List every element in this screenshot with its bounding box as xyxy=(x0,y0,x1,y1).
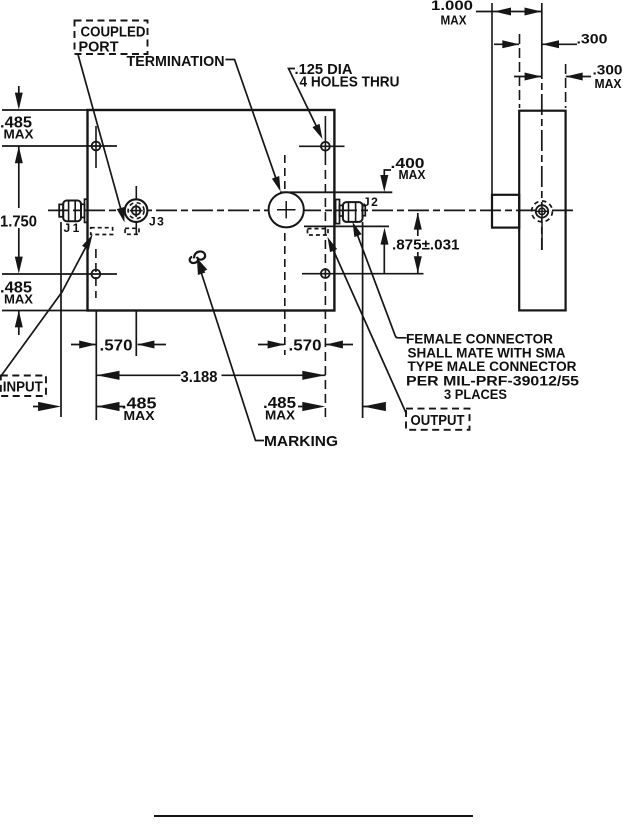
svg-text:FEMALE CONNECTOR: FEMALE CONNECTOR xyxy=(406,332,553,347)
svg-text:.875±.031: .875±.031 xyxy=(392,237,460,254)
label box OUTPUT dashed xyxy=(406,409,470,430)
label J2 xyxy=(363,195,379,209)
svg-text:MAX: MAX xyxy=(4,293,34,307)
node: right hole column dashed extension xyxy=(324,170,326,418)
extension line: J2 tip vertical xyxy=(362,222,364,418)
hole bottom-left with cross xyxy=(92,270,101,279)
svg-text:OUTPUT: OUTPUT xyxy=(411,413,465,429)
label J1 xyxy=(64,221,82,235)
svg-text:4 HOLES THRU: 4 HOLES THRU xyxy=(300,74,400,90)
svg-text:MAX: MAX xyxy=(595,77,623,91)
dimension .570 right xyxy=(258,338,353,355)
svg-text:1.000: 1.000 xyxy=(431,0,473,13)
note: female connector text block xyxy=(406,332,580,402)
node: top-left hole vertical centerline xyxy=(95,126,97,168)
svg-text:.300: .300 xyxy=(593,62,623,78)
hole top-left with cross xyxy=(92,142,101,151)
port marking dashed box under J3 xyxy=(125,228,139,234)
svg-text:1.750: 1.750 xyxy=(0,214,37,231)
svg-text:TYPE MALE CONNECTOR: TYPE MALE CONNECTOR xyxy=(408,359,577,374)
extension line: body top edge left xyxy=(2,109,88,111)
label .125 DIA 4 HOLES THRU xyxy=(295,62,400,90)
side view: jack circles xyxy=(532,201,553,250)
extension line: side front face xyxy=(491,3,493,194)
leader: female connector note to J2 xyxy=(349,220,407,337)
svg-text:MARKING: MARKING xyxy=(264,433,338,450)
dimension .400 MAX boss height xyxy=(380,155,426,274)
dimension 3.188 overall xyxy=(96,369,325,386)
body: main view outline xyxy=(88,110,335,311)
svg-text:MAX: MAX xyxy=(441,14,468,28)
extension line: termination center vertical dashed xyxy=(284,155,286,355)
svg-text:3 PLACES: 3 PLACES xyxy=(444,387,507,402)
bottom rule line xyxy=(154,815,473,817)
extension line: bottom-right hole row / .875 reference xyxy=(302,273,424,275)
dimension .875 +/- .031 xyxy=(392,213,460,274)
svg-text:.300: .300 xyxy=(577,31,608,47)
dimension .300 offset xyxy=(494,31,608,49)
extension line: body bottom edge left xyxy=(2,310,88,312)
boss tab top edge xyxy=(280,191,392,193)
svg-text:MAX: MAX xyxy=(4,128,35,142)
extension line: side body right face xyxy=(565,64,567,108)
dimension .300 MAX depth xyxy=(514,62,623,92)
dimension 1.000 MAX xyxy=(431,0,542,28)
dimension .570 left xyxy=(71,338,166,355)
label MARKING xyxy=(264,433,338,450)
side view: connector block xyxy=(492,195,519,228)
termination: resistor circle xyxy=(269,192,304,227)
leader: termination xyxy=(226,60,285,193)
svg-text:TERMINATION: TERMINATION xyxy=(127,53,225,70)
leader: coupled port to J3 marking xyxy=(78,55,128,224)
node: J3 vertical centerline xyxy=(135,186,137,234)
dimension .485 MAX bottom-left horizontal xyxy=(33,395,157,423)
port marking dashed box under J2 xyxy=(308,229,329,235)
extension line: J1 tip vertical xyxy=(60,222,62,417)
leader: output to J2 marking xyxy=(324,235,407,414)
svg-text:INPUT: INPUT xyxy=(3,379,43,395)
label J3 xyxy=(149,215,165,229)
label box INPUT dashed xyxy=(1,376,46,397)
marking location squiggle symbol xyxy=(190,251,208,273)
extension line: top hole row left xyxy=(2,145,117,147)
leader: .125 dia to top-right hole xyxy=(289,69,327,141)
extension line: side body left face xyxy=(519,34,521,108)
svg-text:J3: J3 xyxy=(149,215,165,229)
svg-text:J1: J1 xyxy=(64,221,82,235)
svg-text:3.188: 3.188 xyxy=(181,369,218,386)
leader: input to J1 marking xyxy=(1,233,96,376)
dimension .485 MAX top-left vertical xyxy=(0,86,34,208)
connector J2: output jack side view xyxy=(336,200,366,224)
extension line: left hole column below body xyxy=(95,311,97,421)
hole top-right with cross xyxy=(321,142,330,151)
svg-text:.570: .570 xyxy=(289,338,322,355)
connector J3: coupled port jack front view xyxy=(125,199,148,222)
node: top-right hole vertical centerline xyxy=(324,116,326,165)
centerline: main horizontal axis xyxy=(48,209,577,211)
extension line: bottom hole row left xyxy=(2,273,117,275)
dimension .485 MAX bottom-left vertical xyxy=(0,280,34,328)
extension line: J3 center below body xyxy=(135,311,137,357)
svg-text:J2: J2 xyxy=(363,195,379,209)
centerline: side-view vertical axis xyxy=(541,3,543,250)
boss tab bottom edge xyxy=(304,225,389,227)
svg-text:PORT: PORT xyxy=(79,39,119,55)
port marking dashed box under J1 xyxy=(91,228,113,235)
label box COUPLED PORT dashed xyxy=(75,21,148,56)
side view: body outline xyxy=(519,111,565,311)
extension line: top-right hole cross horizontal xyxy=(299,145,345,147)
label TERMINATION xyxy=(127,53,225,70)
node: bottom-left hole vertical centerline dashed xyxy=(95,249,97,298)
svg-text:MAX: MAX xyxy=(265,409,296,423)
dimension .485 MAX bottom-right horizontal xyxy=(263,395,386,423)
connector J1: input jack side view xyxy=(59,199,87,222)
dimension 1.750 vertical xyxy=(0,214,37,336)
svg-text:COUPLED: COUPLED xyxy=(81,25,146,41)
svg-text:MAX: MAX xyxy=(124,409,156,423)
hole bottom-right with cross xyxy=(321,269,330,278)
leader: marking xyxy=(193,258,264,440)
svg-text:.570: .570 xyxy=(100,338,133,355)
svg-text:MAX: MAX xyxy=(399,168,427,182)
